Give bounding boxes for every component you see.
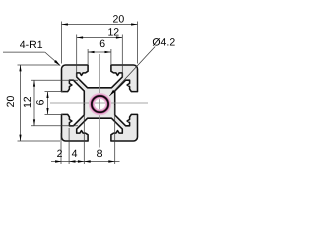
svg-text:8: 8 (97, 148, 103, 160)
svg-text:4: 4 (72, 148, 78, 160)
svg-text:6: 6 (34, 99, 46, 105)
svg-text:4-R1: 4-R1 (20, 39, 43, 51)
svg-text:6: 6 (99, 38, 105, 50)
svg-text:12: 12 (107, 26, 119, 38)
svg-text:20: 20 (113, 13, 125, 25)
svg-text:2: 2 (57, 148, 63, 160)
svg-text:20: 20 (5, 96, 17, 108)
svg-text:Ø4.2: Ø4.2 (152, 37, 175, 49)
svg-text:12: 12 (22, 96, 34, 108)
